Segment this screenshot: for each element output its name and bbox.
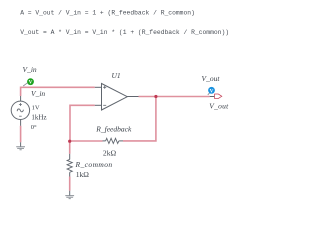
svg-text:V: V [29,80,33,86]
svg-text:V_in: V_in [31,89,45,98]
svg-text:R_common: R_common [75,160,113,169]
wire: node A to R_common [69,141,71,154]
wire: source top to op-amp + input [21,87,95,96]
svg-text:R_feedback: R_feedback [95,125,132,134]
wire: source bottom to ground [20,126,22,143]
probe V_out (blue) [208,87,215,95]
svg-text:1kHz: 1kHz [31,113,46,121]
svg-text:0°: 0° [31,124,37,131]
svg-text:V_out: V_out [209,102,229,111]
probe V_in (green) [23,78,34,86]
svg-text:V_out: V_out [202,74,221,83]
svg-text:1kΩ: 1kΩ [76,170,90,179]
wire: feedback right segment up to output [123,97,156,141]
svg-text:V_out = A * V_in = V_in * (1 +: V_out = A * V_in = V_in * (1 + (R_feedba… [20,29,229,36]
svg-text:A = V_out / V_in = 1 + (R_feed: A = V_out / V_in = 1 + (R_feedback / R_c… [20,10,195,17]
op-amp U1 [95,84,139,111]
svg-text:V_in: V_in [23,65,37,74]
wire: feedback left segment [70,140,103,142]
resistor R_feedback [103,138,124,143]
junction node A (feedback / R_common) [68,140,71,143]
output connector V_out [210,96,215,98]
junction: output / feedback [154,95,157,98]
wire: op-amp - input to node A vertical [70,105,95,141]
wire: R_common to ground [69,177,71,191]
svg-text:1V: 1V [32,104,40,111]
resistor R_common [67,154,72,177]
ground (below R_common) [65,191,74,199]
svg-text:U1: U1 [112,71,121,80]
svg-text:2kΩ: 2kΩ [103,149,117,158]
wire: op-amp output to connector [139,96,210,98]
voltage source V_in [11,96,29,126]
ground (below source) [16,142,25,150]
svg-text:V: V [210,88,214,94]
